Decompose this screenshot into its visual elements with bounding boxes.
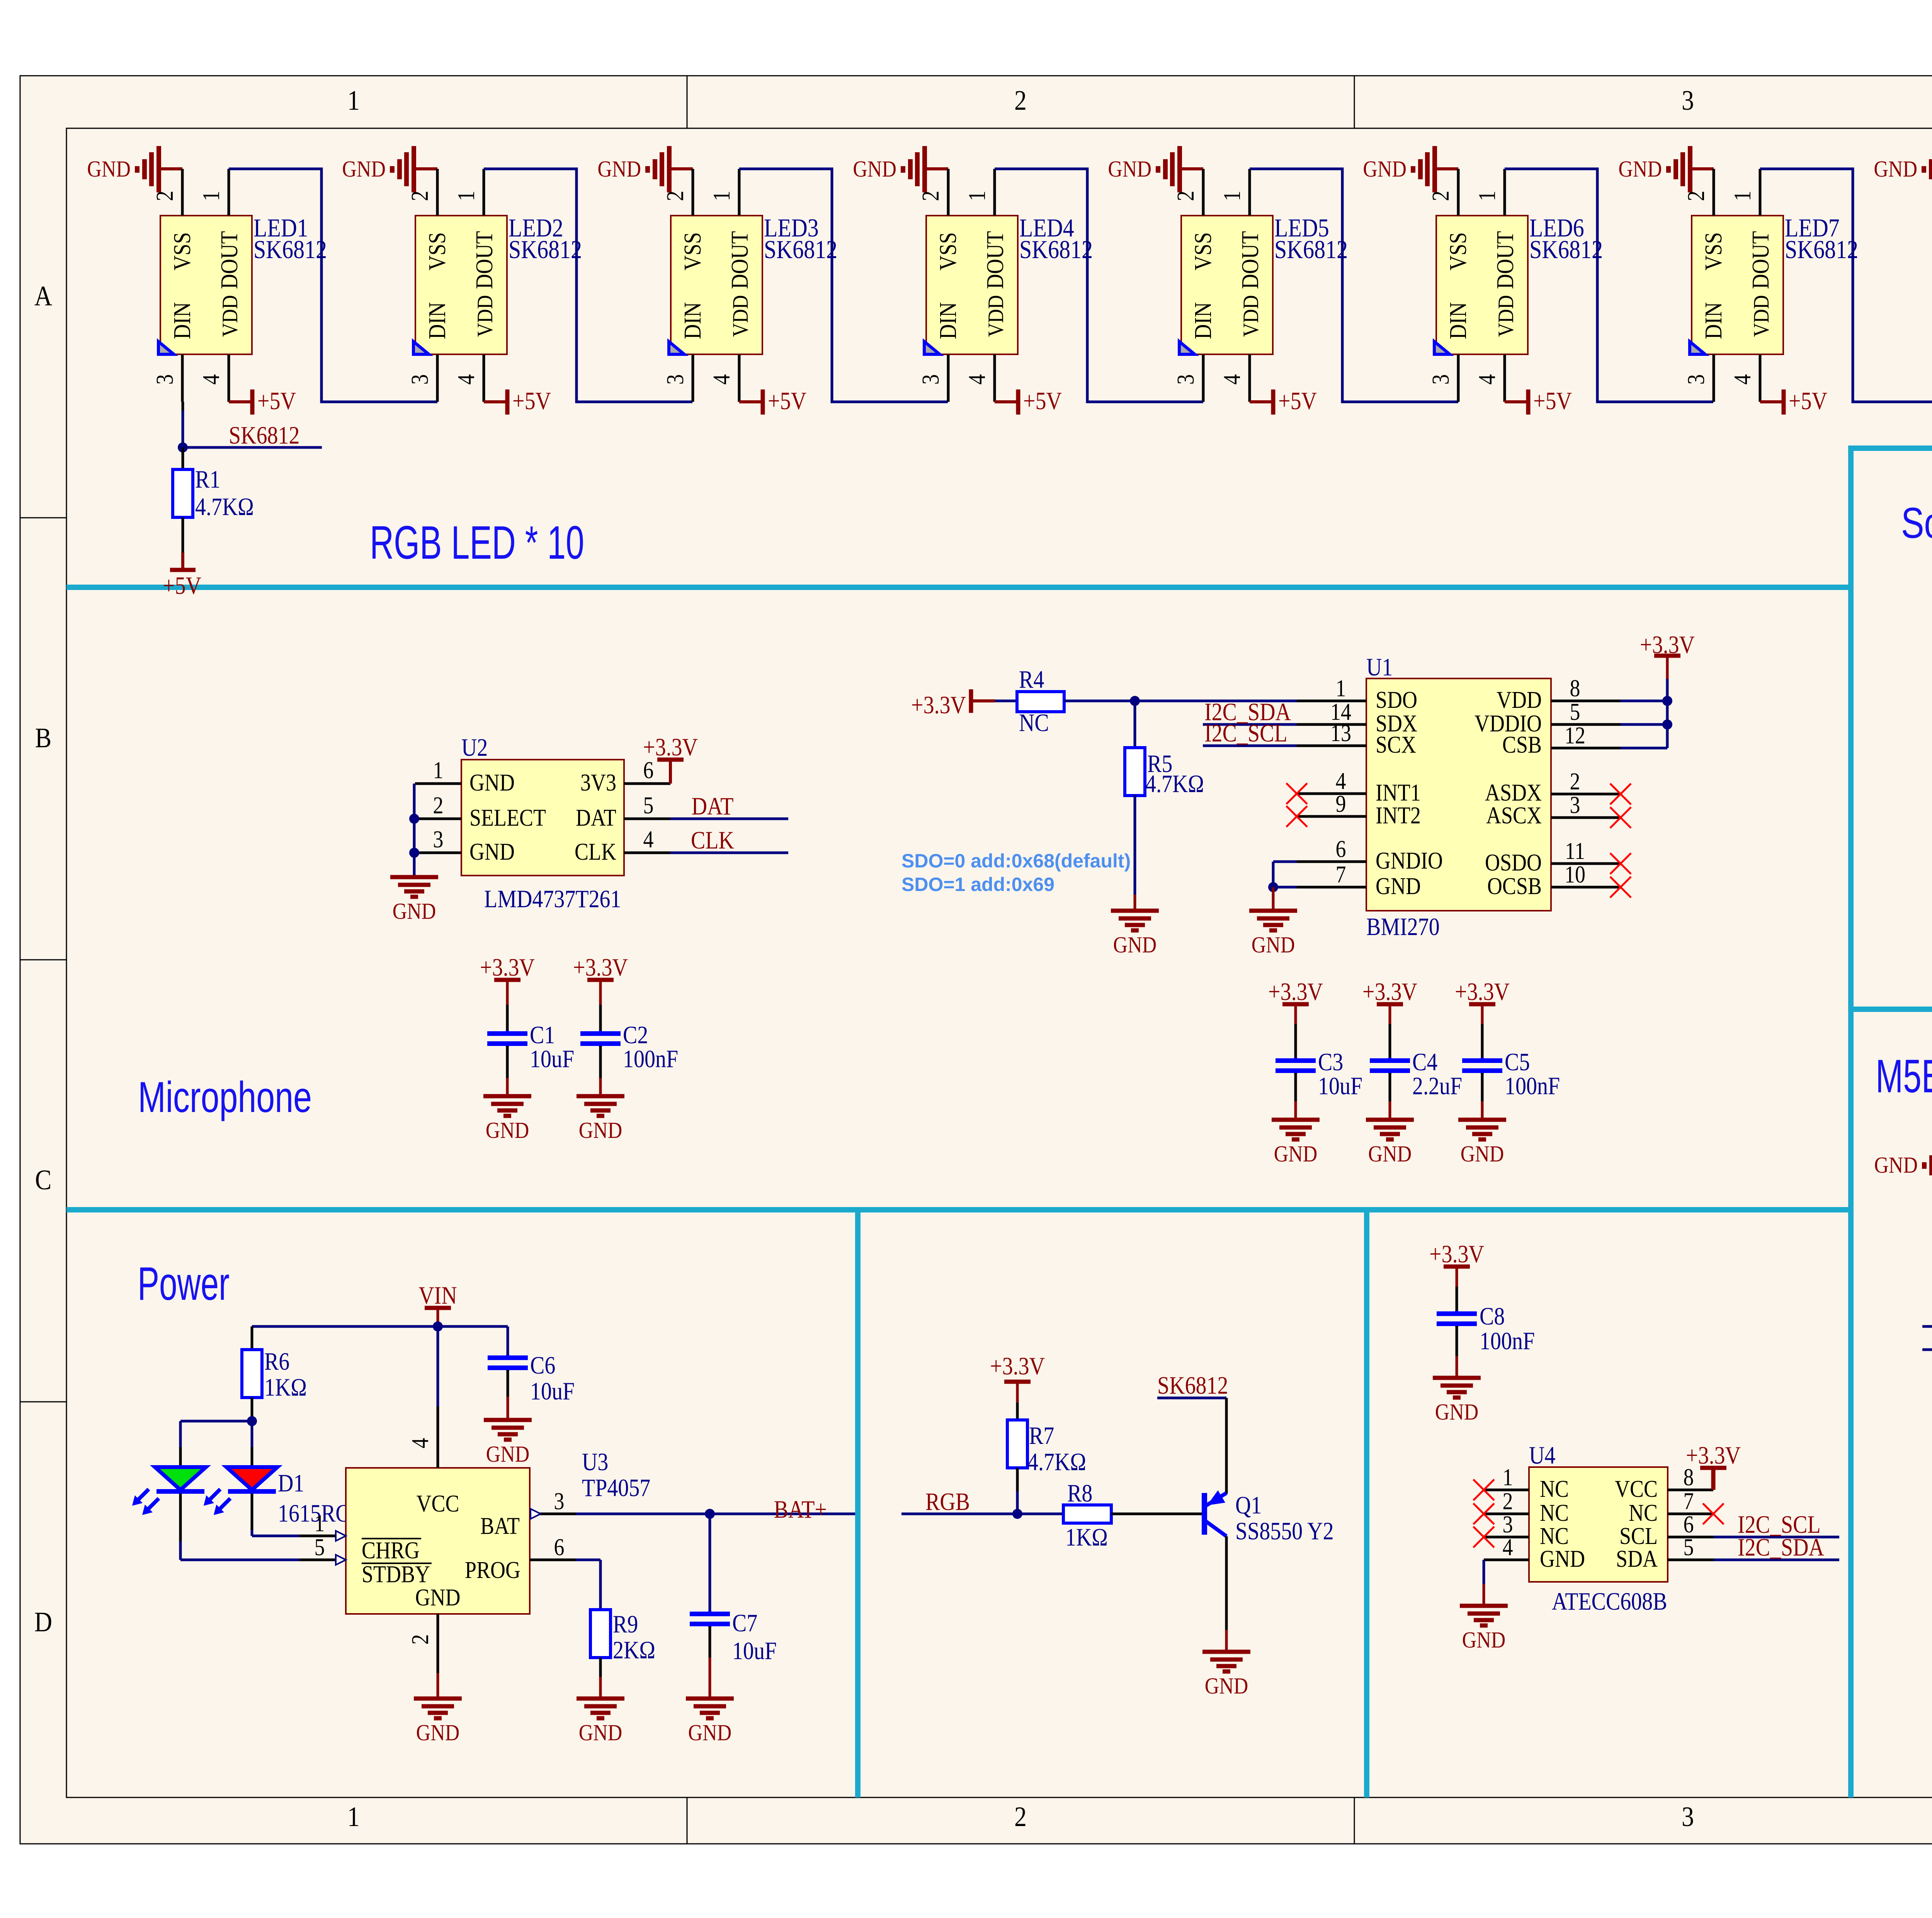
svg-text:GND: GND — [342, 156, 386, 182]
svg-text:VSS: VSS — [679, 232, 706, 270]
svg-text:C3: C3 — [1318, 1048, 1343, 1076]
wire R8 to Q1 base — [1111, 1513, 1202, 1515]
svg-text:4.7KΩ: 4.7KΩ — [1145, 770, 1204, 798]
svg-text:100nF: 100nF — [1480, 1327, 1535, 1355]
svg-text:SK6812: SK6812 — [1157, 1372, 1228, 1399]
svg-text:I2C_SDA: I2C_SDA — [1738, 1534, 1824, 1561]
RGB LED LED7 SK6812 — [1690, 213, 1858, 354]
node U2 pin2 junction — [409, 814, 419, 824]
wire net U2_RXD to J4 pin 15 — [1922, 1300, 1932, 1328]
svg-text:C6: C6 — [530, 1352, 555, 1379]
svg-text:SDO=1 add:0x69: SDO=1 add:0x69 — [901, 874, 1054, 895]
svg-text:GND: GND — [486, 1118, 529, 1143]
ground GND below C7 — [686, 1699, 734, 1746]
ground GND below C5 — [1458, 1120, 1506, 1167]
wire LED7 DOUT to LED8 DIN — [1760, 169, 1932, 402]
U1 pins — [1297, 675, 1621, 888]
svg-text:VDD: VDD — [728, 295, 753, 337]
svg-text:3: 3 — [151, 374, 178, 385]
power +5V at LED5 pin 4 — [1250, 387, 1317, 415]
capacitor C2 100nF — [580, 1021, 678, 1096]
power +3.3V above C4 — [1362, 978, 1417, 1058]
svg-text:3: 3 — [433, 826, 444, 853]
svg-text:100nF: 100nF — [623, 1045, 678, 1073]
svg-text:4.7KΩ: 4.7KΩ — [1027, 1448, 1086, 1476]
svg-text:+3.3V: +3.3V — [643, 733, 698, 761]
svg-text:1: 1 — [347, 85, 360, 116]
svg-text:GND: GND — [688, 1720, 732, 1746]
svg-text:BAT: BAT — [480, 1513, 520, 1539]
svg-text:BMI270: BMI270 — [1366, 913, 1440, 941]
resistor R9 2K — [590, 1610, 655, 1699]
svg-text:NC: NC — [1019, 709, 1049, 737]
svg-text:R4: R4 — [1019, 666, 1044, 694]
ground GND below C1 — [483, 1096, 531, 1143]
section divider RGB LED bottom — [66, 585, 1851, 590]
power +5V below R1 — [163, 553, 201, 600]
svg-text:D: D — [34, 1606, 52, 1637]
svg-text:DIN: DIN — [935, 302, 961, 339]
svg-text:1: 1 — [1729, 191, 1756, 201]
section divider RGB-drive right — [1364, 1210, 1369, 1797]
RGB LED LED6 SK6812 — [1434, 213, 1603, 354]
svg-text:SDO: SDO — [1376, 687, 1417, 713]
svg-text:3: 3 — [1683, 374, 1709, 385]
svg-text:1: 1 — [1503, 1464, 1513, 1491]
svg-text:11: 11 — [1565, 838, 1585, 864]
svg-text:9: 9 — [1336, 791, 1346, 817]
no-connect X at U4 pin 7 — [1703, 1503, 1724, 1524]
svg-text:GND: GND — [1874, 156, 1917, 182]
svg-text:VSS: VSS — [1445, 232, 1471, 270]
svg-text:SK6812: SK6812 — [509, 235, 582, 264]
section title Socket — [1901, 499, 1932, 547]
svg-text:+3.3V: +3.3V — [1268, 978, 1323, 1006]
svg-text:PROG: PROG — [465, 1557, 520, 1583]
capacitor C3 10uF — [1276, 1048, 1362, 1120]
svg-text:10uF: 10uF — [732, 1637, 777, 1665]
svg-text:VSS: VSS — [169, 232, 196, 270]
svg-text:C: C — [35, 1164, 52, 1195]
svg-text:4: 4 — [1503, 1534, 1513, 1561]
LED D1 1615RG — [132, 1467, 351, 1527]
svg-text:+5V: +5V — [768, 387, 806, 415]
svg-text:5: 5 — [315, 1534, 325, 1561]
svg-text:GND: GND — [1376, 873, 1421, 899]
svg-text:2: 2 — [1014, 85, 1027, 116]
svg-text:NC: NC — [1540, 1500, 1569, 1526]
svg-text:GND: GND — [1874, 1153, 1918, 1178]
svg-text:GND: GND — [1274, 1141, 1318, 1167]
svg-text:12: 12 — [1565, 722, 1585, 749]
ground GND at LED5 pin 2 — [1108, 146, 1203, 192]
wire net I2C_SCL to U1 SCX — [1203, 719, 1297, 747]
resistor R8 1K — [1063, 1479, 1111, 1551]
svg-text:1: 1 — [1219, 191, 1245, 201]
svg-text:+5V: +5V — [1023, 387, 1062, 415]
svg-text:2: 2 — [1172, 191, 1199, 201]
wire LED1 DOUT to LED2 DIN — [229, 169, 437, 402]
svg-text:+5V: +5V — [1789, 387, 1827, 415]
svg-text:3: 3 — [406, 374, 433, 385]
svg-text:U2: U2 — [461, 734, 488, 762]
svg-text:U1: U1 — [1366, 653, 1393, 681]
wire VIN to U3 VCC — [437, 1326, 439, 1406]
LED6 pins 1 2 3 4 — [1427, 169, 1505, 402]
svg-text:+5V: +5V — [163, 572, 201, 600]
svg-text:SK6812: SK6812 — [1019, 235, 1093, 264]
svg-text:1: 1 — [964, 191, 990, 201]
power +5V at LED3 pin 4 — [739, 387, 806, 415]
svg-text:Power: Power — [138, 1257, 230, 1310]
LED1 pins 1 2 3 4 — [151, 169, 229, 402]
svg-text:DOUT: DOUT — [471, 231, 498, 289]
svg-text:GND: GND — [1252, 932, 1295, 958]
svg-text:CSB: CSB — [1502, 731, 1542, 758]
svg-text:2: 2 — [1427, 191, 1454, 201]
svg-text:10uF: 10uF — [530, 1045, 574, 1073]
svg-text:1: 1 — [708, 191, 735, 201]
svg-text:4: 4 — [964, 374, 990, 385]
svg-text:VDD: VDD — [983, 295, 1008, 337]
power +3.3V above C1 — [480, 954, 535, 1031]
no-connect X at U1 right pin y2055 — [1610, 784, 1631, 804]
wire net BAT+ — [576, 1496, 855, 1524]
svg-text:4: 4 — [1729, 374, 1756, 385]
ground GND at LED8 pin 2 — [1874, 146, 1932, 192]
ground GND below U2 — [390, 876, 438, 924]
ground GND at LED1 pin 2 — [87, 146, 182, 192]
ground GND at U3 pin 2 — [414, 1673, 462, 1746]
wire R6 to LEDs — [180, 1421, 252, 1467]
svg-text:4: 4 — [643, 826, 654, 853]
svg-text:SK6812: SK6812 — [253, 235, 327, 264]
svg-text:3: 3 — [917, 374, 944, 385]
svg-text:DOUT: DOUT — [216, 231, 243, 289]
wire net CLK — [670, 826, 788, 854]
RGB LED LED5 SK6812 — [1179, 213, 1348, 354]
svg-text:2: 2 — [1014, 1801, 1027, 1832]
svg-text:VDD: VDD — [1238, 295, 1263, 337]
power +5V at LED4 pin 4 — [995, 387, 1062, 415]
svg-text:GND: GND — [597, 156, 641, 182]
svg-text:B: B — [35, 722, 52, 753]
wire net I2C_SCL at U4 — [1714, 1511, 1839, 1539]
ground GND below C3 — [1272, 1120, 1320, 1167]
svg-text:GND: GND — [579, 1720, 622, 1746]
ground GND at J4 pins 1 3 5 — [1874, 1142, 1932, 1189]
wire net SK6812 to Q1 — [1157, 1372, 1228, 1494]
power +3.3V above C3 — [1268, 978, 1323, 1058]
wire net RGB — [901, 1488, 1063, 1516]
svg-text:C7: C7 — [732, 1609, 757, 1637]
svg-text:DOUT: DOUT — [982, 231, 1009, 289]
U3 pins — [299, 1406, 576, 1673]
power +5V at LED1 pin 4 — [229, 387, 296, 415]
svg-text:C1: C1 — [530, 1021, 555, 1049]
section title Microphone — [138, 1073, 312, 1121]
svg-text:R7: R7 — [1029, 1422, 1054, 1450]
svg-text:+3.3V: +3.3V — [573, 954, 628, 981]
ground GND below U4 — [1460, 1606, 1508, 1653]
svg-text:2: 2 — [1570, 768, 1580, 795]
svg-text:DIN: DIN — [1190, 302, 1216, 339]
node R4-R5 junction — [1130, 696, 1140, 706]
svg-text:RGB LED * 10: RGB LED * 10 — [370, 516, 584, 569]
svg-text:DOUT: DOUT — [726, 231, 753, 289]
svg-text:GND: GND — [416, 1720, 460, 1746]
svg-text:SK6812: SK6812 — [764, 235, 837, 264]
wire LED4 DOUT to LED5 DIN — [995, 169, 1203, 402]
resistor R4 NC — [1017, 666, 1064, 737]
svg-text:DAT: DAT — [576, 804, 616, 831]
LED5 pins 1 2 3 4 — [1172, 169, 1250, 402]
svg-text:DAT: DAT — [692, 792, 734, 820]
ground GND below C2 — [577, 1096, 624, 1143]
node VIN junction — [433, 1321, 443, 1331]
svg-text:DOUT: DOUT — [1747, 231, 1774, 289]
svg-text:VDD: VDD — [1493, 295, 1518, 337]
svg-text:U4: U4 — [1529, 1442, 1555, 1469]
svg-text:GND: GND — [469, 838, 515, 865]
svg-text:+5V: +5V — [1278, 387, 1317, 415]
section title M5Bus — [1876, 1050, 1932, 1102]
svg-text:CLK: CLK — [575, 838, 616, 865]
svg-text:DIN: DIN — [1700, 302, 1727, 339]
ground GND at LED2 pin 2 — [342, 146, 437, 192]
section divider Microphone bottom — [66, 1207, 1851, 1212]
ground GND at LED6 pin 2 — [1363, 146, 1458, 192]
svg-text:8: 8 — [1570, 675, 1580, 702]
transistor Q1 SS8550 — [1204, 1490, 1334, 1545]
svg-text:5: 5 — [1570, 699, 1580, 725]
resistor R5 4.7K — [1125, 701, 1204, 911]
RGB LED LED1 SK6812 — [158, 213, 327, 354]
svg-text:7: 7 — [1336, 861, 1346, 888]
svg-text:3: 3 — [1172, 374, 1199, 385]
power +3.3V above C5 — [1455, 978, 1510, 1058]
wire net I2C_SDA to J4 pin 17 — [1922, 1323, 1932, 1351]
svg-text:5: 5 — [1684, 1534, 1694, 1561]
svg-text:SDA: SDA — [1616, 1546, 1658, 1572]
svg-text:2KΩ: 2KΩ — [613, 1636, 655, 1664]
wire VIN rail — [252, 1325, 508, 1328]
microphone U2 LMD4737T261 — [461, 734, 624, 913]
node U1 VDD junction — [1662, 696, 1672, 706]
node U1 GND junction — [1268, 882, 1278, 892]
svg-text:2: 2 — [662, 191, 689, 201]
svg-text:1: 1 — [198, 191, 224, 201]
svg-text:1KΩ: 1KΩ — [264, 1374, 307, 1401]
svg-text:NC: NC — [1629, 1500, 1658, 1526]
capacitor C6 10uF — [488, 1326, 575, 1420]
svg-text:DOUT: DOUT — [1237, 231, 1264, 289]
svg-text:+5V: +5V — [1533, 387, 1572, 415]
svg-text:R1: R1 — [195, 466, 220, 493]
svg-text:GND: GND — [1113, 932, 1157, 958]
svg-text:GND: GND — [469, 769, 515, 796]
power +3.3V at U1 VDD — [1640, 631, 1695, 701]
node U1 VDDIO junction — [1662, 719, 1672, 729]
capacitor C7 10uF — [690, 1514, 777, 1699]
svg-text:INT2: INT2 — [1376, 802, 1421, 829]
svg-text:10: 10 — [1565, 861, 1585, 888]
resistor R1 4.7K — [173, 447, 254, 553]
wire net I2C_SDA at U4 — [1714, 1534, 1839, 1561]
no-connect X at U4 pin 1 — [1473, 1479, 1494, 1500]
svg-text:Socket: Socket — [1901, 499, 1932, 547]
no-connect X at U1 right pin y2116 — [1610, 807, 1631, 828]
wire U2 GND pins to ground — [413, 784, 416, 876]
node U2 pin3 junction — [409, 848, 419, 858]
ground GND below R5 — [1111, 911, 1159, 958]
RGB LED LED2 SK6812 — [413, 213, 582, 354]
svg-text:C4: C4 — [1412, 1048, 1437, 1076]
svg-text:13: 13 — [1330, 720, 1351, 746]
svg-text:4: 4 — [1219, 374, 1245, 385]
svg-text:100nF: 100nF — [1505, 1072, 1560, 1100]
resistor R7 4.7K — [1007, 1420, 1086, 1514]
svg-text:1: 1 — [347, 1801, 360, 1832]
note SDO address text — [901, 850, 1131, 895]
svg-text:R9: R9 — [613, 1610, 638, 1638]
power +3.3V at U4 VCC — [1686, 1442, 1741, 1490]
LED3 pins 1 2 3 4 — [662, 169, 739, 402]
power +3.3V at R4 — [911, 689, 1017, 719]
svg-text:2: 2 — [917, 191, 944, 201]
svg-text:GND: GND — [1205, 1673, 1248, 1699]
svg-text:VCC: VCC — [1615, 1476, 1658, 1502]
svg-text:5: 5 — [643, 792, 654, 819]
svg-text:2: 2 — [1683, 191, 1709, 201]
LED2 pins 1 2 3 4 — [406, 169, 484, 402]
section divider Socket top — [1851, 445, 1932, 451]
section divider M5Bus top — [1851, 1007, 1932, 1012]
capacitor C5 100nF — [1462, 1048, 1560, 1120]
svg-text:+3.3V: +3.3V — [480, 954, 535, 981]
svg-text:VSS: VSS — [1190, 232, 1216, 270]
svg-text:6: 6 — [554, 1534, 565, 1561]
ground GND at LED3 pin 2 — [597, 146, 693, 192]
svg-text:10uF: 10uF — [530, 1377, 575, 1405]
wire red LED to U3 CHRG — [252, 1494, 299, 1536]
svg-text:GND: GND — [1363, 156, 1406, 182]
RGB LED LED4 SK6812 — [924, 213, 1093, 354]
svg-text:3: 3 — [554, 1488, 565, 1515]
wire LED5 DOUT to LED6 DIN — [1250, 169, 1458, 402]
svg-text:CLK: CLK — [691, 826, 734, 854]
node R6 bottom junction — [247, 1416, 257, 1426]
svg-text:4: 4 — [407, 1438, 434, 1449]
ground GND below C6 — [484, 1420, 532, 1467]
power +5V at LED6 pin 4 — [1505, 387, 1572, 415]
ground GND below U1 — [1249, 887, 1297, 958]
svg-text:7: 7 — [1684, 1488, 1694, 1515]
resistor R6 1K — [242, 1326, 307, 1421]
svg-text:3: 3 — [662, 374, 689, 385]
svg-text:SK6812: SK6812 — [1274, 235, 1348, 264]
wire U1 GNDIO GND to ground — [1273, 862, 1297, 887]
svg-text:OCSB: OCSB — [1487, 873, 1542, 899]
svg-text:R8: R8 — [1067, 1479, 1092, 1507]
svg-text:D1: D1 — [278, 1469, 304, 1497]
svg-text:ASCX: ASCX — [1486, 802, 1542, 829]
svg-text:1: 1 — [453, 191, 480, 201]
svg-text:C5: C5 — [1505, 1048, 1530, 1076]
svg-text:BAT+: BAT+ — [774, 1496, 827, 1524]
svg-text:TP4057: TP4057 — [582, 1474, 650, 1502]
ground GND below C4 — [1366, 1120, 1414, 1167]
svg-text:GND: GND — [1618, 156, 1662, 182]
node BAT junction — [705, 1509, 715, 1519]
svg-text:1: 1 — [433, 757, 444, 784]
svg-text:2: 2 — [407, 1634, 434, 1645]
svg-text:GND: GND — [87, 156, 131, 182]
ground GND at LED4 pin 2 — [853, 146, 948, 192]
RGB LED LED3 SK6812 — [669, 213, 837, 354]
svg-text:+3.3V: +3.3V — [1362, 978, 1417, 1006]
svg-text:4: 4 — [198, 374, 224, 385]
svg-text:2: 2 — [406, 191, 433, 201]
node SK6812 junction — [178, 442, 188, 452]
svg-text:1: 1 — [1336, 675, 1346, 702]
svg-text:3: 3 — [1427, 374, 1454, 385]
svg-text:GND: GND — [1108, 156, 1151, 182]
svg-text:VDD: VDD — [1749, 295, 1774, 337]
capacitor C1 10uF — [487, 1021, 574, 1096]
svg-text:VSS: VSS — [424, 232, 451, 270]
svg-text:VCC: VCC — [416, 1490, 459, 1517]
section divider left of Socket/M5Bus — [1848, 445, 1854, 1797]
svg-text:GND: GND — [1368, 1141, 1412, 1167]
svg-text:CHRG: CHRG — [362, 1537, 420, 1564]
svg-text:3: 3 — [1570, 792, 1580, 818]
U4 pins — [1484, 1464, 1714, 1561]
svg-text:Q1: Q1 — [1235, 1491, 1262, 1519]
svg-text:2.2uF: 2.2uF — [1412, 1072, 1462, 1100]
power +3.3V above C2 — [573, 954, 628, 1031]
section title Power — [138, 1257, 230, 1310]
capacitor C4 2.2uF — [1370, 1048, 1462, 1120]
svg-text:SDO=0 add:0x68(default): SDO=0 add:0x68(default) — [901, 850, 1131, 872]
svg-text:+3.3V: +3.3V — [990, 1352, 1045, 1380]
svg-text:I2C_SCL: I2C_SCL — [1204, 719, 1287, 747]
wire R4 to U1 SDO — [1064, 700, 1297, 702]
svg-text:ATECC608B: ATECC608B — [1552, 1588, 1667, 1615]
svg-text:VDD: VDD — [473, 295, 497, 337]
svg-text:A: A — [34, 280, 52, 311]
svg-text:GND: GND — [1461, 1141, 1504, 1167]
power +3.3V above C8 — [1429, 1240, 1484, 1311]
wire LED2 DOUT to LED3 DIN — [484, 169, 692, 402]
svg-text:SK6812: SK6812 — [1529, 235, 1603, 264]
svg-text:GND: GND — [853, 156, 896, 182]
svg-text:GNDIO: GNDIO — [1376, 847, 1443, 874]
wire U4 GND to ground — [1483, 1560, 1485, 1606]
wire net DAT — [670, 792, 788, 820]
svg-text:SCX: SCX — [1376, 731, 1416, 758]
IMU U1 BMI270 — [1366, 653, 1551, 941]
svg-text:2: 2 — [151, 191, 178, 201]
wire Q1 emitter to ground — [1225, 1536, 1228, 1652]
wire LED6 DOUT to LED7 DIN — [1505, 169, 1713, 402]
svg-text:GND: GND — [1435, 1399, 1479, 1425]
svg-text:VSS: VSS — [935, 232, 961, 270]
svg-text:GND: GND — [1462, 1627, 1506, 1653]
svg-text:1: 1 — [1474, 191, 1500, 201]
no-connect X at U1 INT2 — [1286, 806, 1307, 827]
crypto U4 ATECC608B — [1529, 1442, 1668, 1615]
